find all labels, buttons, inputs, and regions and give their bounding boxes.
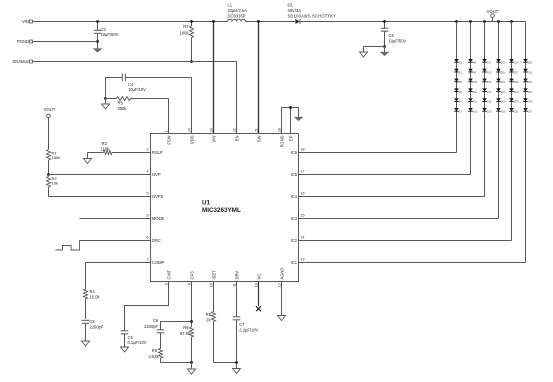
wire VIN rail bbox=[33, 21, 228, 23]
ground at EP bbox=[294, 117, 303, 121]
svg-text:VOUT: VOUT bbox=[44, 107, 56, 112]
svg-text:C6: C6 bbox=[389, 33, 395, 38]
svg-text:D14: D14 bbox=[487, 62, 492, 65]
LED D20 bbox=[496, 59, 501, 62]
LED D21 bbox=[496, 69, 501, 72]
wire C6 ground leg down bbox=[384, 47, 386, 53]
svg-text:22µH/2.6A: 22µH/2.6A bbox=[228, 8, 248, 13]
wire COMP pin bbox=[86, 262, 151, 264]
LED D9 bbox=[468, 69, 473, 72]
svg-text:D17: D17 bbox=[487, 91, 492, 94]
svg-text:7: 7 bbox=[147, 258, 149, 262]
capacitor C4 bbox=[106, 77, 123, 79]
svg-text:D18: D18 bbox=[487, 101, 492, 104]
LED D32 bbox=[523, 59, 528, 62]
svg-text:MIC3263YML: MIC3263YML bbox=[202, 207, 241, 214]
ground at R3 bbox=[84, 159, 92, 164]
svg-text:IC3: IC3 bbox=[291, 216, 298, 221]
svg-text:SD103AWS SCHOTTKY: SD103AWS SCHOTTKY bbox=[288, 14, 337, 19]
svg-text:11: 11 bbox=[232, 283, 236, 287]
ground at C5 bbox=[121, 347, 129, 352]
LED D8 bbox=[468, 59, 473, 62]
resistor R7 bbox=[191, 22, 193, 27]
terminal PGND bbox=[30, 40, 33, 43]
svg-text:D10: D10 bbox=[473, 81, 478, 84]
svg-text:21: 21 bbox=[254, 128, 258, 132]
wire C4 left leg bbox=[105, 78, 107, 99]
wire LED column 1 bbox=[456, 22, 458, 153]
LED D31 bbox=[509, 108, 514, 111]
svg-text:D15: D15 bbox=[487, 71, 492, 74]
svg-text:R7: R7 bbox=[183, 24, 189, 29]
wire L1 to SW pin bbox=[258, 22, 260, 134]
wire NC pin bbox=[258, 282, 260, 307]
svg-text:2.2µF/10V: 2.2µF/10V bbox=[239, 328, 258, 333]
resistor R6 bbox=[159, 349, 163, 359]
capacitor C5 bbox=[121, 330, 129, 332]
svg-text:14: 14 bbox=[301, 236, 305, 240]
svg-text:D27: D27 bbox=[514, 71, 519, 74]
svg-text:PGND: PGND bbox=[17, 39, 29, 44]
svg-text:OVP: OVP bbox=[152, 172, 161, 177]
ground at C6 bbox=[380, 52, 389, 56]
wire VIN rail to VIN pin bbox=[213, 22, 215, 134]
LED D13 bbox=[468, 108, 473, 111]
LED D11 bbox=[468, 88, 473, 91]
capacitor C6 output bbox=[384, 22, 386, 29]
wire LED column 3 bbox=[484, 22, 486, 197]
wire IC6 to column 1 bbox=[299, 152, 457, 154]
svg-text:PGND: PGND bbox=[280, 135, 285, 147]
svg-text:VIN: VIN bbox=[22, 19, 29, 24]
svg-text:D21: D21 bbox=[501, 71, 506, 74]
ground at C4/R5 bbox=[102, 104, 110, 109]
wire LED column 5 bbox=[511, 22, 513, 241]
svg-text:16: 16 bbox=[301, 192, 305, 196]
svg-text:12: 12 bbox=[277, 283, 281, 287]
svg-text:200k: 200k bbox=[118, 106, 128, 111]
LED D19 bbox=[482, 108, 487, 111]
svg-text:5: 5 bbox=[147, 214, 149, 218]
svg-text:23: 23 bbox=[209, 128, 213, 132]
svg-text:15.0k: 15.0k bbox=[90, 295, 101, 300]
node DRV ground bbox=[235, 361, 238, 364]
LED D34 bbox=[523, 79, 528, 82]
wire ISET pin bbox=[213, 282, 215, 312]
LED D24 bbox=[496, 98, 501, 101]
svg-text:4: 4 bbox=[147, 170, 149, 174]
wire C4 to VDD pin bbox=[191, 78, 193, 134]
wire AGND pin bbox=[281, 282, 283, 316]
LED D35 bbox=[523, 88, 528, 91]
capacitor C7 bbox=[233, 316, 241, 318]
svg-text:13: 13 bbox=[301, 258, 305, 262]
svg-text:DRC: DRC bbox=[152, 238, 161, 243]
capacitor C6 comp bbox=[157, 329, 165, 331]
ground at C6 left bbox=[360, 52, 368, 57]
wire CFS branch bbox=[161, 322, 192, 330]
wire VOUT rail bbox=[301, 21, 526, 23]
wire LED column 4 bbox=[498, 22, 500, 219]
wire DRV pin bbox=[236, 282, 238, 317]
wire to OVP pin bbox=[49, 174, 151, 176]
svg-text:D25: D25 bbox=[501, 111, 506, 114]
LED D6 bbox=[454, 98, 459, 101]
svg-text:17: 17 bbox=[301, 170, 305, 174]
svg-text:D32: D32 bbox=[528, 62, 533, 65]
wire PGND to C3 bbox=[33, 41, 98, 43]
wire IC1 to column 6 bbox=[299, 262, 526, 264]
node LED column 3 bbox=[483, 20, 486, 23]
svg-text:D28: D28 bbox=[514, 81, 519, 84]
ground at CFS bbox=[188, 369, 196, 374]
svg-text:OVPS: OVPS bbox=[152, 194, 164, 199]
svg-text:2200pF: 2200pF bbox=[90, 324, 104, 329]
svg-text:L1: L1 bbox=[228, 2, 233, 7]
svg-text:DO3316P: DO3316P bbox=[228, 14, 246, 19]
wire LED column 6 bbox=[525, 22, 527, 263]
svg-text:100k: 100k bbox=[180, 31, 190, 36]
terminal VIN bbox=[30, 20, 33, 23]
svg-text:2200pF: 2200pF bbox=[144, 324, 158, 329]
svg-text:VDD: VDD bbox=[190, 135, 195, 144]
svg-text:FSW: FSW bbox=[167, 135, 172, 144]
LED D22 bbox=[496, 79, 501, 82]
svg-text:D37: D37 bbox=[528, 111, 533, 114]
LED D15 bbox=[482, 69, 487, 72]
svg-text:SW: SW bbox=[257, 135, 262, 142]
LED D4 bbox=[454, 79, 459, 82]
svg-text:R8: R8 bbox=[183, 325, 189, 330]
resistor R9 bbox=[212, 312, 216, 322]
LED D16 bbox=[482, 79, 487, 82]
svg-text:MODE: MODE bbox=[152, 216, 165, 221]
svg-text:R3: R3 bbox=[102, 141, 108, 146]
terminal ENABLE bbox=[30, 60, 33, 63]
LED D12 bbox=[468, 98, 473, 101]
svg-text:VOUT: VOUT bbox=[487, 9, 499, 14]
svg-text:10: 10 bbox=[209, 283, 213, 287]
LED D27 bbox=[509, 69, 514, 72]
svg-text:COMP: COMP bbox=[152, 260, 165, 265]
LED D3 bbox=[454, 69, 459, 72]
LED D28 bbox=[509, 79, 514, 82]
wire to OVPS pin bbox=[49, 196, 151, 198]
svg-text:R4: R4 bbox=[90, 289, 96, 294]
LED D36 bbox=[523, 98, 528, 101]
svg-text:EP: EP bbox=[289, 135, 294, 141]
resistor R8 bbox=[190, 327, 194, 337]
svg-text:8: 8 bbox=[187, 283, 191, 285]
svg-text:D11: D11 bbox=[473, 91, 478, 94]
LED D23 bbox=[496, 88, 501, 91]
wire SW node bbox=[246, 21, 296, 23]
svg-text:IC5: IC5 bbox=[291, 172, 298, 177]
resistor R4 bbox=[84, 289, 88, 299]
svg-text:D19: D19 bbox=[487, 111, 492, 114]
svg-text:C6: C6 bbox=[153, 318, 159, 323]
capacitor C3 bbox=[97, 22, 99, 31]
svg-text:19: 19 bbox=[254, 283, 258, 287]
svg-text:D33: D33 bbox=[528, 71, 533, 74]
resistor R2 bbox=[48, 175, 50, 177]
wire CINT pin bbox=[125, 282, 169, 331]
svg-text:110k: 110k bbox=[101, 147, 111, 152]
diode D1 bbox=[296, 19, 300, 23]
svg-text:D1: D1 bbox=[288, 2, 294, 7]
LED D30 bbox=[509, 98, 514, 101]
svg-text:2: 2 bbox=[147, 148, 149, 152]
svg-text:D16: D16 bbox=[487, 81, 492, 84]
ground at AGND bbox=[278, 316, 286, 321]
wire CFS pin bbox=[191, 282, 193, 328]
svg-text:IC4: IC4 bbox=[291, 194, 298, 199]
svg-text:D26: D26 bbox=[514, 62, 519, 65]
svg-text:10µF/50V: 10µF/50V bbox=[389, 39, 407, 44]
svg-text:R9: R9 bbox=[206, 312, 212, 317]
wire IC5 to column 2 bbox=[299, 174, 471, 176]
svg-text:9: 9 bbox=[164, 283, 168, 285]
node OVP divider bbox=[47, 173, 50, 176]
svg-text:AGND: AGND bbox=[280, 268, 285, 280]
svg-text:C5: C5 bbox=[128, 335, 134, 340]
LED D5 bbox=[454, 88, 459, 91]
ground at C2 bbox=[82, 341, 90, 346]
svg-text:D36: D36 bbox=[528, 101, 533, 104]
node LED column 2 bbox=[469, 20, 472, 23]
node LED column 4 bbox=[497, 20, 500, 23]
wire PGND-EP ground net bbox=[281, 108, 283, 134]
resistor R3 bbox=[88, 152, 104, 154]
LED D26 bbox=[509, 59, 514, 62]
svg-text:IC1: IC1 bbox=[291, 260, 298, 265]
LED D17 bbox=[482, 88, 487, 91]
wire IC3 to column 4 bbox=[299, 218, 499, 220]
wire LED column 2 bbox=[470, 22, 472, 175]
square wave symbol bbox=[56, 241, 80, 251]
svg-text:CINT: CINT bbox=[167, 269, 172, 279]
svg-text:U1: U1 bbox=[202, 199, 211, 206]
svg-text:D24: D24 bbox=[501, 101, 506, 104]
node CFS ground bbox=[190, 361, 193, 364]
svg-text:1: 1 bbox=[164, 130, 168, 132]
LED D37 bbox=[523, 108, 528, 111]
LED D7 bbox=[454, 108, 459, 111]
svg-text:D30: D30 bbox=[514, 101, 519, 104]
node LED column 1 bbox=[455, 20, 458, 23]
svg-text:6: 6 bbox=[147, 236, 149, 240]
svg-text:10µF/50V: 10µF/50V bbox=[101, 32, 119, 37]
svg-text:IC6: IC6 bbox=[291, 150, 298, 155]
svg-text:VIN: VIN bbox=[212, 135, 217, 142]
wire C6 ground leg left bbox=[364, 46, 385, 48]
wire IC2 to column 5 bbox=[299, 240, 512, 242]
svg-text:20: 20 bbox=[277, 128, 281, 132]
svg-text:RSLP: RSLP bbox=[152, 150, 163, 155]
LED D2 bbox=[454, 59, 459, 62]
wire DRC pin bbox=[80, 240, 151, 242]
svg-text:22: 22 bbox=[232, 128, 236, 132]
svg-text:ENABLE: ENABLE bbox=[12, 59, 29, 64]
svg-text:4.02k: 4.02k bbox=[148, 354, 159, 359]
terminal VOUT top bbox=[491, 14, 495, 18]
LED D10 bbox=[468, 79, 473, 82]
wire R5 to FSW pin bbox=[168, 99, 170, 134]
svg-text:D20: D20 bbox=[501, 62, 506, 65]
LED D18 bbox=[482, 98, 487, 101]
svg-text:CFS: CFS bbox=[190, 271, 195, 279]
svg-text:D35: D35 bbox=[528, 91, 533, 94]
wire MODE pin bbox=[80, 218, 151, 220]
ground at C3 bbox=[93, 49, 102, 53]
svg-text:D13: D13 bbox=[473, 111, 478, 114]
svg-text:NC: NC bbox=[257, 274, 262, 280]
inductor L1 bbox=[228, 19, 246, 21]
svg-text:18: 18 bbox=[301, 148, 305, 152]
LED D14 bbox=[482, 59, 487, 62]
svg-text:EN: EN bbox=[235, 135, 240, 141]
LED D29 bbox=[509, 88, 514, 91]
svg-text:D23: D23 bbox=[501, 91, 506, 94]
svg-text:D22: D22 bbox=[501, 81, 506, 84]
svg-text:DRV: DRV bbox=[235, 271, 240, 280]
LED D25 bbox=[496, 108, 501, 111]
ground at C7 bbox=[233, 369, 241, 374]
capacitor C2 bbox=[82, 319, 90, 321]
svg-text:3: 3 bbox=[147, 192, 149, 196]
resistor R1 bbox=[47, 150, 51, 161]
svg-text:24: 24 bbox=[187, 128, 191, 132]
svg-text:97.6k: 97.6k bbox=[180, 331, 191, 336]
wire IC4 to column 3 bbox=[299, 196, 485, 198]
svg-text:ISET: ISET bbox=[212, 270, 217, 280]
svg-text:40V/3A: 40V/3A bbox=[288, 8, 302, 13]
svg-text:0.1µF/10V: 0.1µF/10V bbox=[128, 340, 147, 345]
svg-text:D34: D34 bbox=[528, 81, 533, 84]
no-connect X bbox=[256, 306, 261, 311]
node LED column 5 bbox=[510, 20, 513, 23]
LED D33 bbox=[523, 69, 528, 72]
svg-text:D31: D31 bbox=[514, 111, 519, 114]
svg-text:IC2: IC2 bbox=[291, 238, 298, 243]
svg-text:15: 15 bbox=[301, 214, 305, 218]
svg-text:10k: 10k bbox=[52, 181, 58, 186]
svg-text:150k: 150k bbox=[52, 155, 61, 160]
svg-text:D12: D12 bbox=[473, 101, 478, 104]
svg-text:C7: C7 bbox=[239, 322, 245, 327]
svg-text:R6: R6 bbox=[152, 348, 158, 353]
svg-text:D29: D29 bbox=[514, 91, 519, 94]
resistor R5 bbox=[106, 98, 117, 100]
wire ENABLE to EN pin bbox=[33, 61, 237, 63]
IC U1 MIC3263YML body bbox=[151, 134, 299, 282]
svg-text:10µF/10V: 10µF/10V bbox=[128, 87, 146, 92]
